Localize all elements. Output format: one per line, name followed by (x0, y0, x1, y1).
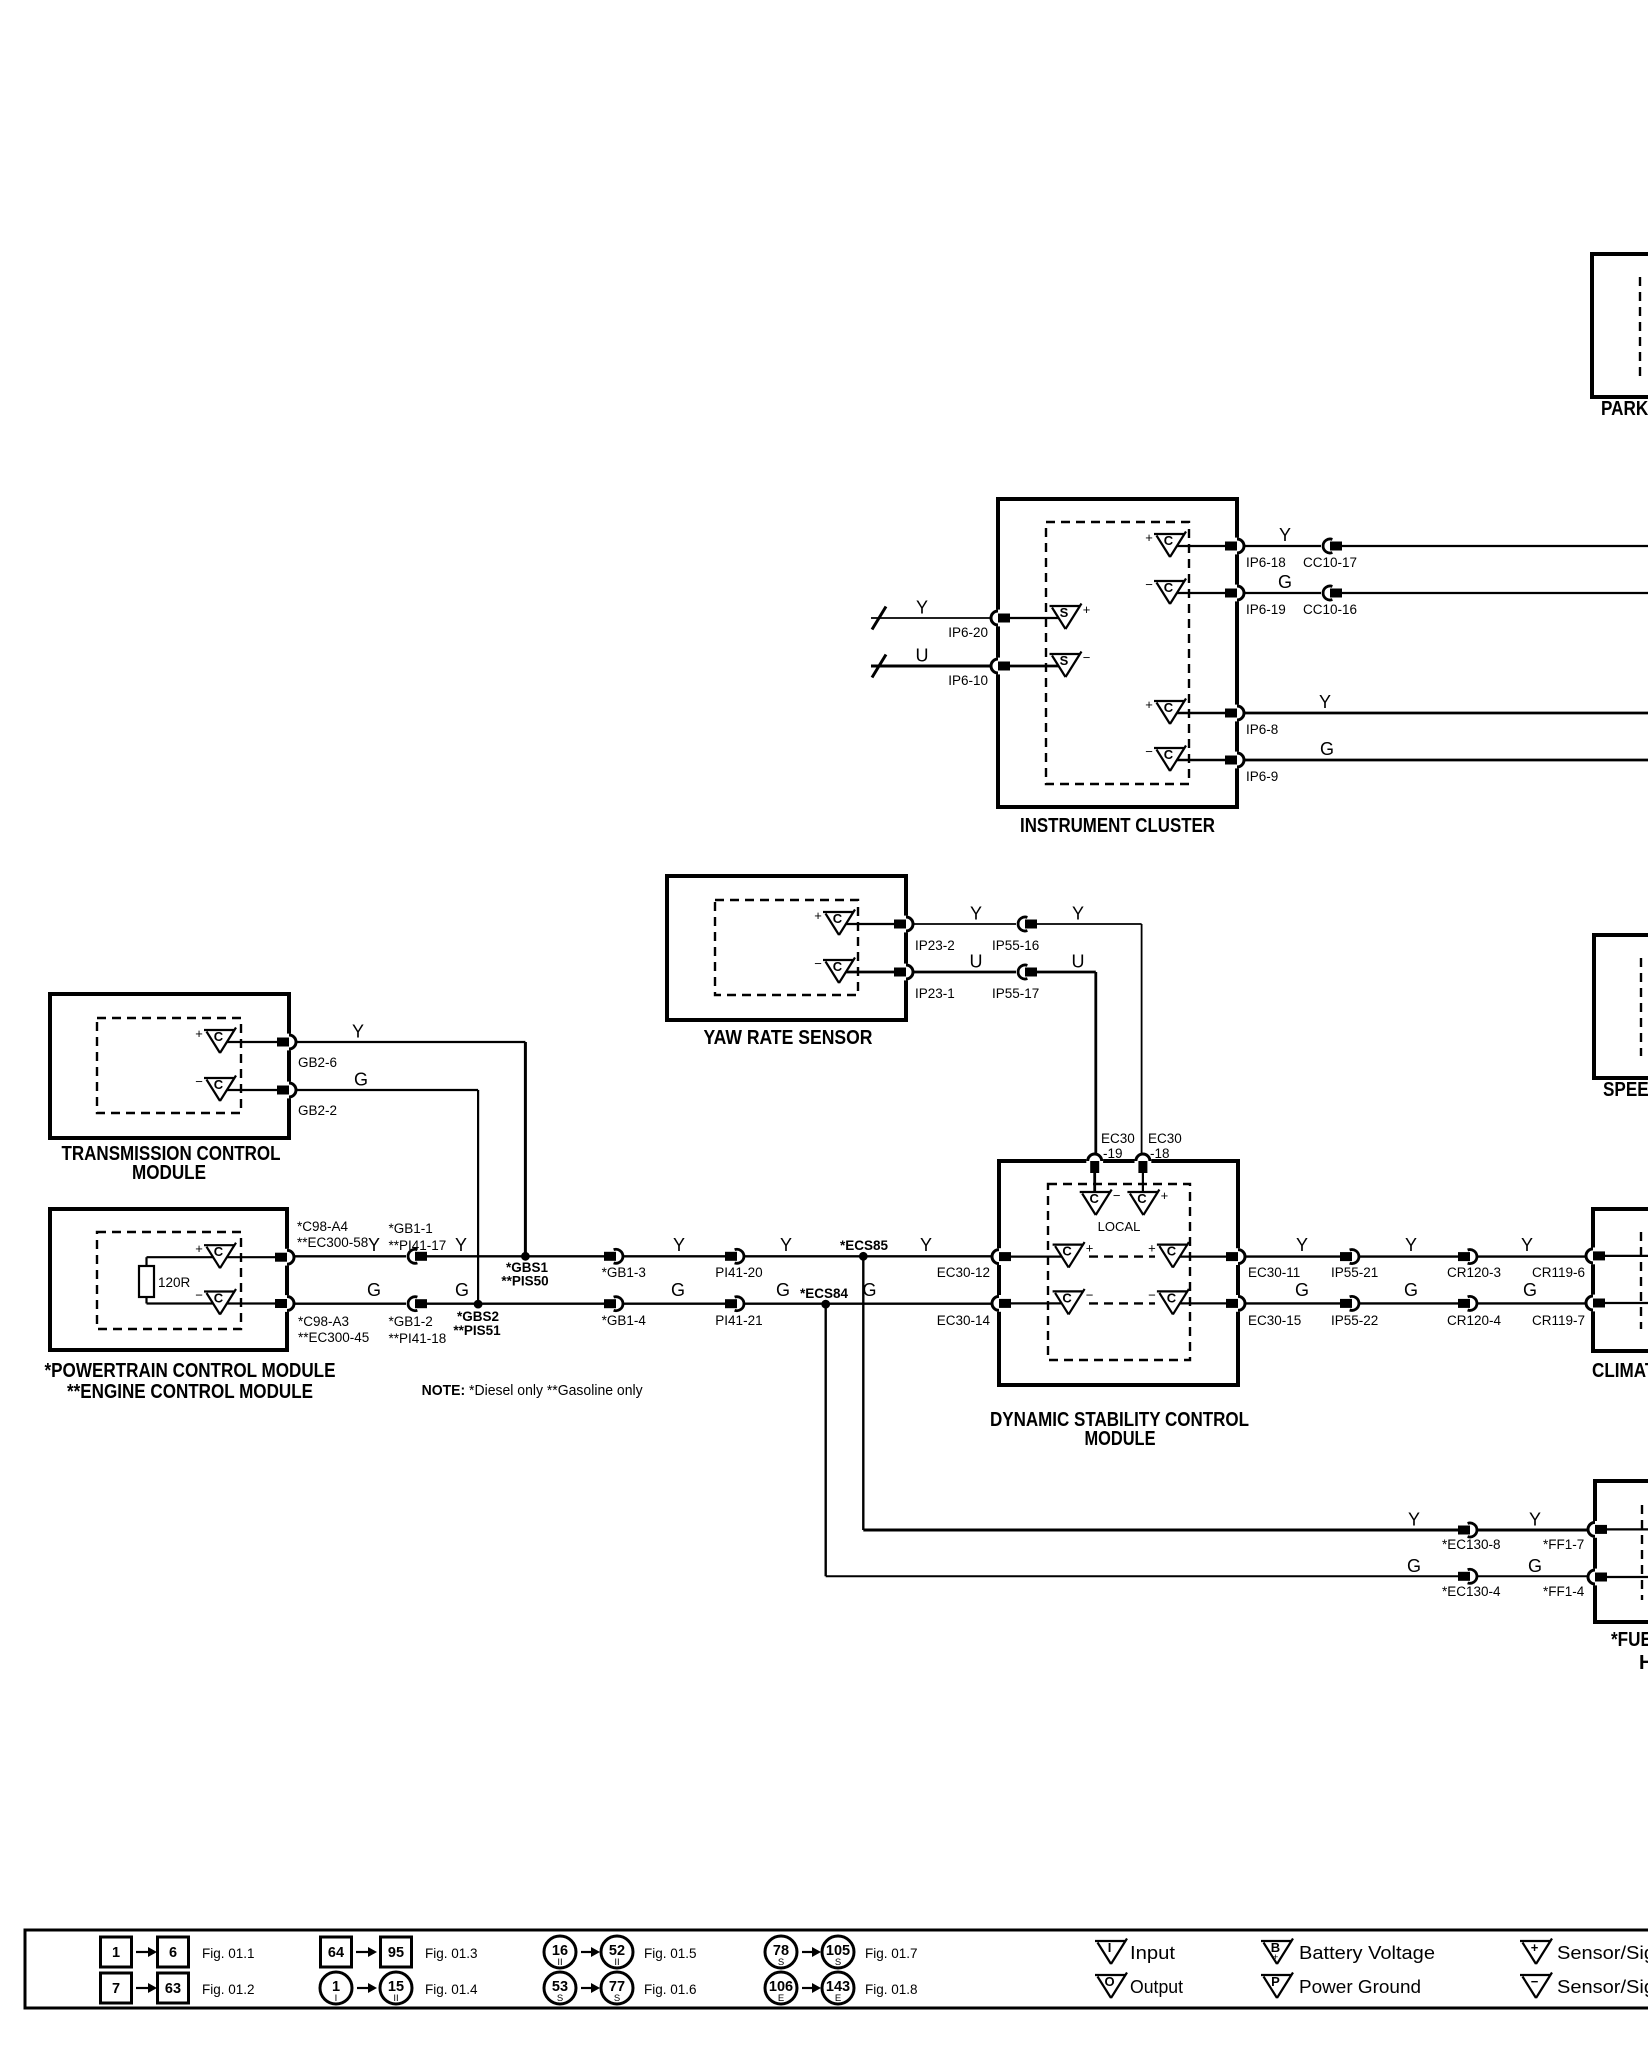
symbol C- (CAN low) IP6-19 (1145, 577, 1186, 604)
svg-text:CR120-3: CR120-3 (1447, 1265, 1501, 1280)
pin IP6-19 (1225, 585, 1244, 602)
svg-text:Fig. 01.3: Fig. 01.3 (425, 1946, 478, 1961)
svg-text:64: 64 (328, 1945, 344, 1961)
svg-text:S: S (1060, 653, 1069, 668)
svg-text:Y: Y (1529, 1510, 1541, 1530)
svg-text:**PI41-18: **PI41-18 (389, 1331, 447, 1346)
legend circle 106 (765, 1972, 797, 2004)
wire Y pin IP6-18 to connector CC10-17 (1245, 545, 1323, 547)
wire G down to junction *GBS2 (477, 1090, 479, 1304)
connector *EC130-8 (1458, 1523, 1479, 1537)
svg-text:+: + (195, 1026, 203, 1041)
legend circle 53 (544, 1972, 576, 2004)
svg-text:C: C (214, 1291, 224, 1306)
svg-text:G: G (1407, 1556, 1421, 1576)
dashed internal boundary of instrument cluster (1046, 522, 1189, 784)
svg-text:YAW RATE SENSOR: YAW RATE SENSOR (704, 1027, 873, 1049)
svg-text:+: + (1531, 1940, 1539, 1955)
wire through resistor 120R (145, 1257, 147, 1303)
svg-text:*GB1-2: *GB1-2 (389, 1314, 433, 1329)
pin *FF1-4 (1588, 1569, 1607, 1586)
svg-text:Y: Y (920, 1235, 932, 1255)
module box U2 YAW RATE SENSOR (667, 876, 906, 1020)
legend circle 52 (601, 1936, 633, 1968)
module box U8 CLIMATE (partially visible) (1593, 1209, 1648, 1351)
svg-text:S: S (835, 1957, 841, 1968)
svg-text:**PIS51: **PIS51 (453, 1323, 501, 1338)
svg-text:MODULE: MODULE (132, 1162, 206, 1184)
svg-text:CR119-6: CR119-6 (1532, 1265, 1585, 1280)
svg-text:H: H (1639, 1652, 1648, 1674)
svg-text:−: − (1086, 1287, 1094, 1302)
svg-text:*GB1-1: *GB1-1 (389, 1221, 433, 1236)
svg-text:**PIS50: **PIS50 (501, 1274, 548, 1289)
module box U1 INSTRUMENT CLUSTER (998, 499, 1237, 807)
wire Y to pin IP6-20 (871, 617, 990, 619)
svg-text:G: G (776, 1280, 790, 1300)
pin *FF1-7 (1588, 1521, 1607, 1538)
svg-text:IP55-21: IP55-21 (1331, 1265, 1378, 1280)
symbol C+ LOCAL EC30-18 (1127, 1188, 1168, 1215)
svg-text:II: II (393, 1993, 398, 2004)
legend arrow 53-77 (581, 1983, 600, 1993)
svg-text:IP23-1: IP23-1 (915, 986, 955, 1001)
svg-text:Y: Y (1319, 692, 1331, 712)
pin CR119-7 (1586, 1295, 1605, 1312)
svg-text:Output: Output (1130, 1977, 1183, 1997)
svg-text:Y: Y (1296, 1235, 1308, 1255)
svg-text:Sensor/Sig: Sensor/Sig (1557, 1977, 1648, 1997)
svg-text:G: G (455, 1280, 469, 1300)
connector IP55-21 (1340, 1250, 1361, 1264)
wire G connector CC10-16 to edge (1342, 592, 1648, 594)
connector PI41-20 (725, 1249, 746, 1263)
svg-text:IP23-2: IP23-2 (915, 938, 955, 953)
svg-text:Y: Y (970, 904, 982, 924)
wire Y PCM to connector *GB1-1 (295, 1255, 408, 1257)
svg-text:−: − (814, 956, 822, 971)
dashed internal boundary of DSC (1048, 1184, 1190, 1360)
svg-text:Fig. 01.2: Fig. 01.2 (202, 1982, 255, 1997)
svg-text:95: 95 (388, 1945, 404, 1961)
wire pin CR119-7 stub (1605, 1302, 1648, 1304)
pin GB2-6 (277, 1034, 296, 1051)
wire G pin IP6-19 to connector CC10-16 (1245, 592, 1323, 594)
wire pin IP6-20 to S+ symbol (1010, 617, 1059, 619)
svg-text:Y: Y (1521, 1235, 1533, 1255)
svg-text:**ENGINE CONTROL MODULE: **ENGINE CONTROL MODULE (67, 1381, 313, 1403)
svg-text:−: − (1083, 650, 1091, 665)
legend square 63 (158, 1973, 189, 2003)
connector IP55-22 (1340, 1296, 1361, 1310)
svg-text:EC30-14: EC30-14 (937, 1313, 991, 1328)
symbol C- GB2-2 (195, 1074, 236, 1101)
wire Y connector *GB1-1 to *GB1-3 (427, 1255, 604, 1257)
wire pin EC30-18 stub down (1142, 1161, 1144, 1192)
wire Y connector CR120-3 to pin CR119-6 (1478, 1255, 1585, 1257)
svg-text:C: C (1167, 1290, 1177, 1305)
svg-text:EC30: EC30 (1101, 1131, 1135, 1146)
wire G connector CR120-4 to pin CR119-7 (1478, 1302, 1585, 1304)
resistor 120R (CAN termination) (139, 1266, 191, 1297)
svg-text:*C98-A3: *C98-A3 (298, 1314, 349, 1329)
svg-text:C: C (1164, 580, 1174, 595)
module box U4 POWERTRAIN/ENGINE CONTROL MODULE (50, 1209, 287, 1350)
pin EC30-15 (1226, 1295, 1245, 1312)
symbol C- IP23-1 (814, 956, 855, 983)
svg-text:P: P (1271, 1974, 1280, 1989)
svg-text:G: G (862, 1280, 876, 1300)
dashed internal boundary of PCM (97, 1232, 241, 1329)
svg-text:I: I (1108, 1940, 1112, 1955)
pin IP23-2 (894, 916, 913, 933)
dashed internal boundary of SPEED box (1640, 958, 1642, 1056)
legend symbol Input (1095, 1939, 1127, 1965)
legend symbol Power Ground (1261, 1973, 1293, 1999)
symbol C- EC30-15 (1148, 1287, 1189, 1314)
wire pin EC30-19 stub down (1093, 1161, 1096, 1192)
legend symbol Sensor/Signal ground (1520, 1973, 1552, 1999)
svg-text:Power Ground: Power Ground (1299, 1977, 1421, 1997)
svg-text:GB2-6: GB2-6 (298, 1055, 337, 1070)
svg-text:U: U (1072, 952, 1085, 972)
wire C+ symbol to pin IP6-8 (1177, 712, 1226, 715)
svg-text:C: C (833, 911, 843, 926)
svg-text:7: 7 (112, 1981, 120, 1997)
legend circle 77 (601, 1972, 633, 2004)
legend symbol Battery Voltage (1261, 1939, 1293, 1965)
svg-text:Y: Y (916, 598, 928, 618)
svg-text:**EC300-45: **EC300-45 (298, 1330, 369, 1345)
svg-text:C: C (214, 1077, 224, 1092)
svg-text:120R: 120R (158, 1275, 191, 1290)
svg-text:C: C (214, 1029, 224, 1044)
wire Y down to pin EC30-18 (1141, 924, 1143, 1161)
svg-text:CLIMATE: CLIMATE (1592, 1360, 1648, 1382)
wire pin CR119-6 stub (1605, 1255, 1648, 1257)
svg-text:CC10-16: CC10-16 (1303, 602, 1357, 617)
svg-text:C: C (1137, 1191, 1147, 1206)
svg-text:*FUEL: *FUEL (1611, 1629, 1648, 1651)
svg-text:+: + (1273, 1952, 1279, 1963)
legend square 6 (158, 1937, 189, 1967)
legend circle 143 (822, 1972, 854, 2004)
connector *GB1-1/**PI41-17 (406, 1249, 427, 1263)
svg-text:U: U (916, 646, 929, 666)
dashed internal boundary of TCM (97, 1018, 241, 1113)
svg-text:*GBS2: *GBS2 (457, 1309, 499, 1324)
symbol C- LOCAL EC30-19 (1080, 1188, 1121, 1215)
svg-text:G: G (1523, 1280, 1537, 1300)
wire U pin IP23-1 to connector IP55-17 (914, 971, 1016, 974)
svg-text:Y: Y (1408, 1510, 1420, 1530)
legend circle 105 (822, 1936, 854, 1968)
legend symbol Output (1095, 1973, 1127, 1999)
svg-text:-18: -18 (1150, 1146, 1170, 1161)
wire Y connector IP55-21 to CR120-3 (1360, 1255, 1458, 1257)
wire G east to connector *EC130-4 (826, 1575, 1462, 1577)
svg-text:PARKING: PARKING (1601, 398, 1648, 420)
svg-text:**PI41-17: **PI41-17 (389, 1238, 447, 1253)
wire U down to pin EC30-19 (1094, 972, 1097, 1161)
wire G connector IP55-22 to CR120-4 (1360, 1302, 1458, 1304)
svg-text:PI41-21: PI41-21 (715, 1313, 762, 1328)
connector PI41-21 (725, 1297, 746, 1311)
junction *GBS2/**PIS51 (474, 1300, 483, 1309)
svg-text:INSTRUMENT CLUSTER: INSTRUMENT CLUSTER (1020, 815, 1215, 837)
module box U9 FUEL FIRED HEATER (partially visible) (1595, 1481, 1648, 1622)
svg-text:II: II (557, 1957, 562, 1968)
svg-text:Y: Y (455, 1235, 467, 1255)
svg-text:IP6-19: IP6-19 (1246, 602, 1286, 617)
wire C+ symbol to pin (227, 1256, 276, 1258)
wire Y down to junction *GBS1 (524, 1042, 527, 1256)
svg-text:−: − (1531, 1974, 1539, 1989)
module box U5 DYNAMIC STABILITY CONTROL MODULE (999, 1161, 1238, 1385)
wire C+ symbol to pin IP23-2 (846, 923, 895, 925)
svg-text:+: + (1148, 1241, 1156, 1256)
svg-text:C: C (1062, 1244, 1072, 1259)
pin EC30-19 (1086, 1154, 1103, 1173)
pin GB2-2 (277, 1082, 296, 1099)
wire Y junction *ECS85 down (862, 1256, 864, 1530)
legend circle 16 (544, 1936, 576, 1968)
svg-text:C: C (1062, 1290, 1072, 1305)
wire C+ symbol to pin IP6-18 (1177, 545, 1226, 547)
svg-text:IP55-16: IP55-16 (992, 938, 1039, 953)
svg-text:Y: Y (1279, 525, 1291, 545)
svg-text:EC30-11: EC30-11 (1248, 1265, 1300, 1280)
svg-text:CR119-7: CR119-7 (1532, 1313, 1585, 1328)
wire G pin IP6-9 to edge (1245, 759, 1648, 762)
symbol C- IP6-9 (1145, 744, 1186, 771)
legend bar frame (25, 1930, 1648, 2008)
legend arrow 16-52 (581, 1947, 600, 1957)
connector *GB1-2/**PI41-18 (406, 1297, 427, 1311)
connector IP55-16 (1016, 917, 1037, 931)
connector CC10-17 (1321, 539, 1342, 553)
svg-text:+: + (195, 1241, 203, 1256)
svg-text:IP55-17: IP55-17 (992, 986, 1039, 1001)
svg-text:*FF1-4: *FF1-4 (1543, 1584, 1585, 1599)
wire Y connector CC10-17 to edge (1342, 545, 1648, 547)
svg-text:S: S (614, 1993, 620, 2004)
legend arrow 64-95 (356, 1947, 377, 1957)
svg-text:S: S (1060, 605, 1069, 620)
wire Y pin IP23-2 to connector IP55-16 (914, 923, 1016, 925)
legend arrow 1-15 (357, 1983, 377, 1993)
svg-text:Y: Y (780, 1235, 792, 1255)
svg-text:Y: Y (1405, 1235, 1417, 1255)
symbol C+ (CAN high) IP6-18 (1145, 530, 1186, 557)
svg-text:*GB1-4: *GB1-4 (602, 1313, 647, 1328)
dashed internal boundary of FUEL box (1641, 1505, 1643, 1600)
svg-text:Y: Y (352, 1022, 364, 1042)
module box U7 SPEED (partially visible) (1594, 935, 1648, 1078)
connector *GB1-3 (604, 1249, 625, 1263)
pin IP6-9 (1225, 752, 1244, 769)
symbol C+ IP23-2 (814, 908, 855, 935)
svg-text:−: − (1113, 1188, 1121, 1203)
dashed internal boundary of CLIMATE box (1640, 1232, 1642, 1329)
wire G connector PI41-21 to DSC pin EC30-14 (745, 1302, 991, 1304)
pin EC30-11 (1226, 1248, 1245, 1265)
pin IP6-18 (1225, 538, 1244, 555)
legend circle 78 (765, 1936, 797, 1968)
connector *GB1-4 (604, 1297, 625, 1311)
legend circle 15 (380, 1972, 412, 2004)
svg-text:Fig. 01.7: Fig. 01.7 (865, 1946, 918, 1961)
svg-text:CC10-17: CC10-17 (1303, 555, 1357, 570)
wire resistor to C+ symbol (147, 1256, 214, 1258)
svg-text:+: + (814, 908, 822, 923)
wire C+ symbol to pin GB2-6 (227, 1041, 278, 1043)
wire C- symbol to pin GB2-2 (227, 1089, 278, 1091)
wire pin EC30-14 to C- symbol (1011, 1302, 1062, 1304)
svg-text:Battery Voltage: Battery Voltage (1299, 1943, 1435, 1963)
svg-text:*GB1-3: *GB1-3 (602, 1265, 646, 1280)
continuation slash on wire U IP6-10 (872, 655, 886, 678)
svg-text:−: − (1145, 577, 1153, 592)
pin EC30-12 (992, 1248, 1011, 1265)
pin IP6-10 (991, 658, 1010, 675)
pin IP6-8 (1225, 705, 1244, 722)
svg-text:E: E (835, 1993, 841, 2004)
svg-text:Fig. 01.4: Fig. 01.4 (425, 1982, 478, 1997)
svg-text:C: C (1164, 747, 1174, 762)
svg-text:−: − (1148, 1287, 1156, 1302)
svg-text:G: G (671, 1280, 685, 1300)
dashed internal wire C+ to C+ (1089, 1255, 1155, 1257)
wire Y connector *GB1-3 to PI41-20 (624, 1255, 725, 1257)
wire Y connector *EC130-8 to pin *FF1-7 (1478, 1529, 1587, 1532)
svg-text:LOCAL: LOCAL (1098, 1219, 1141, 1234)
symbol C- PCM (195, 1288, 236, 1315)
pin EC30-14 (992, 1295, 1011, 1312)
connector *EC130-4 (1458, 1569, 1479, 1583)
svg-text:C: C (1167, 1244, 1177, 1259)
dashed internal wire C- to C- (1089, 1302, 1155, 1304)
pin *C98-A4/**EC300-58 (275, 1249, 294, 1266)
svg-text:−: − (195, 1288, 203, 1303)
svg-text:6: 6 (169, 1945, 177, 1961)
svg-text:−: − (1145, 744, 1153, 759)
legend symbol Sensor/Signal supply (1520, 1939, 1552, 1965)
svg-text:C: C (1164, 700, 1174, 715)
wire G junction *ECS84 down (825, 1304, 827, 1576)
svg-text:−: − (195, 1074, 203, 1089)
wire Y pin EC30-11 to connector IP55-21 (1246, 1255, 1340, 1257)
wire Y connector PI41-20 to DSC pin EC30-12 (745, 1255, 991, 1257)
wire G connector *EC130-4 to pin *FF1-4 (1478, 1575, 1587, 1577)
svg-text:C: C (1164, 533, 1174, 548)
svg-text:Fig. 01.8: Fig. 01.8 (865, 1982, 918, 1997)
wire G pin EC30-15 to connector IP55-22 (1246, 1302, 1340, 1304)
dashed internal boundary of yaw rate sensor (715, 900, 858, 995)
svg-text:-19: -19 (1103, 1146, 1123, 1161)
svg-text:MODULE: MODULE (1085, 1428, 1156, 1450)
wire C- symbol to pin IP6-19 (1177, 592, 1226, 594)
wire C- symbol to pin IP23-1 (846, 971, 895, 974)
wire pin *FF1-7 stub (1607, 1528, 1648, 1530)
symbol S+ IP6-20 (1050, 602, 1091, 629)
svg-text:*EC130-8: *EC130-8 (1442, 1537, 1501, 1552)
wire U connector IP55-17 east (1037, 971, 1096, 974)
symbol C+ PCM (195, 1241, 236, 1268)
legend circle 1 (320, 1972, 352, 2004)
symbol C+ EC30-11 (1148, 1241, 1189, 1268)
svg-text:IP6-18: IP6-18 (1246, 555, 1286, 570)
wire G connector *GB1-2 to *GB1-4 (427, 1302, 604, 1304)
wire C- symbol to pin EC30-15 (1180, 1302, 1227, 1304)
wire pin *FF1-4 stub (1607, 1576, 1648, 1578)
svg-text:IP6-9: IP6-9 (1246, 769, 1278, 784)
svg-text:O: O (1104, 1974, 1114, 1989)
connector CC10-16 (1321, 586, 1342, 600)
pin *C98-A3/**EC300-45 (275, 1295, 294, 1312)
svg-text:NOTE: *Diesel only **Gasoline: NOTE: *Diesel only **Gasoline only (422, 1382, 643, 1399)
svg-text:IP6-20: IP6-20 (948, 625, 988, 640)
wire Y pin IP6-8 to edge (1245, 712, 1648, 715)
legend square 7 (101, 1973, 132, 2003)
wire G connector *GB1-4 to PI41-21 (624, 1302, 725, 1304)
svg-text:Sensor/Sig: Sensor/Sig (1557, 1943, 1648, 1963)
legend arrow 78-105 (802, 1947, 821, 1957)
pin CR119-6 (1586, 1248, 1605, 1265)
svg-text:Fig. 01.6: Fig. 01.6 (644, 1982, 697, 1997)
svg-text:Y: Y (368, 1235, 380, 1255)
legend square 1 (101, 1937, 132, 1967)
connector IP55-17 (1016, 965, 1037, 979)
svg-text:Input: Input (1130, 1943, 1175, 1963)
svg-text:IP55-22: IP55-22 (1331, 1313, 1378, 1328)
svg-text:*FF1-7: *FF1-7 (1543, 1537, 1584, 1552)
junction *ECS84 (821, 1300, 830, 1309)
svg-text:*C98-A4: *C98-A4 (297, 1219, 349, 1234)
wire G pin GB2-2 east (297, 1089, 478, 1091)
svg-text:S: S (778, 1957, 784, 1968)
svg-text:*ECS84: *ECS84 (800, 1286, 849, 1301)
legend arrow 1-6 (136, 1947, 157, 1957)
svg-text:G: G (1295, 1280, 1309, 1300)
module box U3 TRANSMISSION CONTROL MODULE (50, 994, 289, 1138)
svg-text:63: 63 (165, 1981, 181, 1997)
svg-text:Fig. 01.1: Fig. 01.1 (202, 1946, 255, 1961)
svg-text:+: + (1145, 530, 1153, 545)
svg-text:EC30-15: EC30-15 (1248, 1313, 1301, 1328)
svg-text:+: + (1161, 1188, 1169, 1203)
wire Y east to connector *EC130-8 (863, 1529, 1462, 1532)
wire C- symbol to pin (227, 1302, 276, 1304)
svg-text:G: G (1404, 1280, 1418, 1300)
wire resistor to C- symbol (147, 1302, 214, 1304)
svg-text:S: S (557, 1993, 563, 2004)
svg-text:+: + (1145, 697, 1153, 712)
svg-text:I: I (335, 1993, 338, 2004)
wire pin IP6-10 to S- symbol (1010, 665, 1059, 668)
svg-text:G: G (354, 1070, 368, 1090)
svg-text:U: U (970, 952, 983, 972)
symbol C- EC30-14 (1053, 1287, 1094, 1314)
pin IP23-1 (894, 964, 913, 981)
wire C- symbol to pin IP6-9 (1177, 759, 1226, 762)
pin IP6-20 (991, 610, 1010, 627)
svg-text:SPEED: SPEED (1603, 1079, 1648, 1101)
svg-text:**EC300-58: **EC300-58 (297, 1235, 368, 1250)
legend arrow 106-143 (802, 1983, 821, 1993)
svg-text:Y: Y (1072, 904, 1084, 924)
wire C+ symbol to pin EC30-11 (1180, 1255, 1227, 1257)
